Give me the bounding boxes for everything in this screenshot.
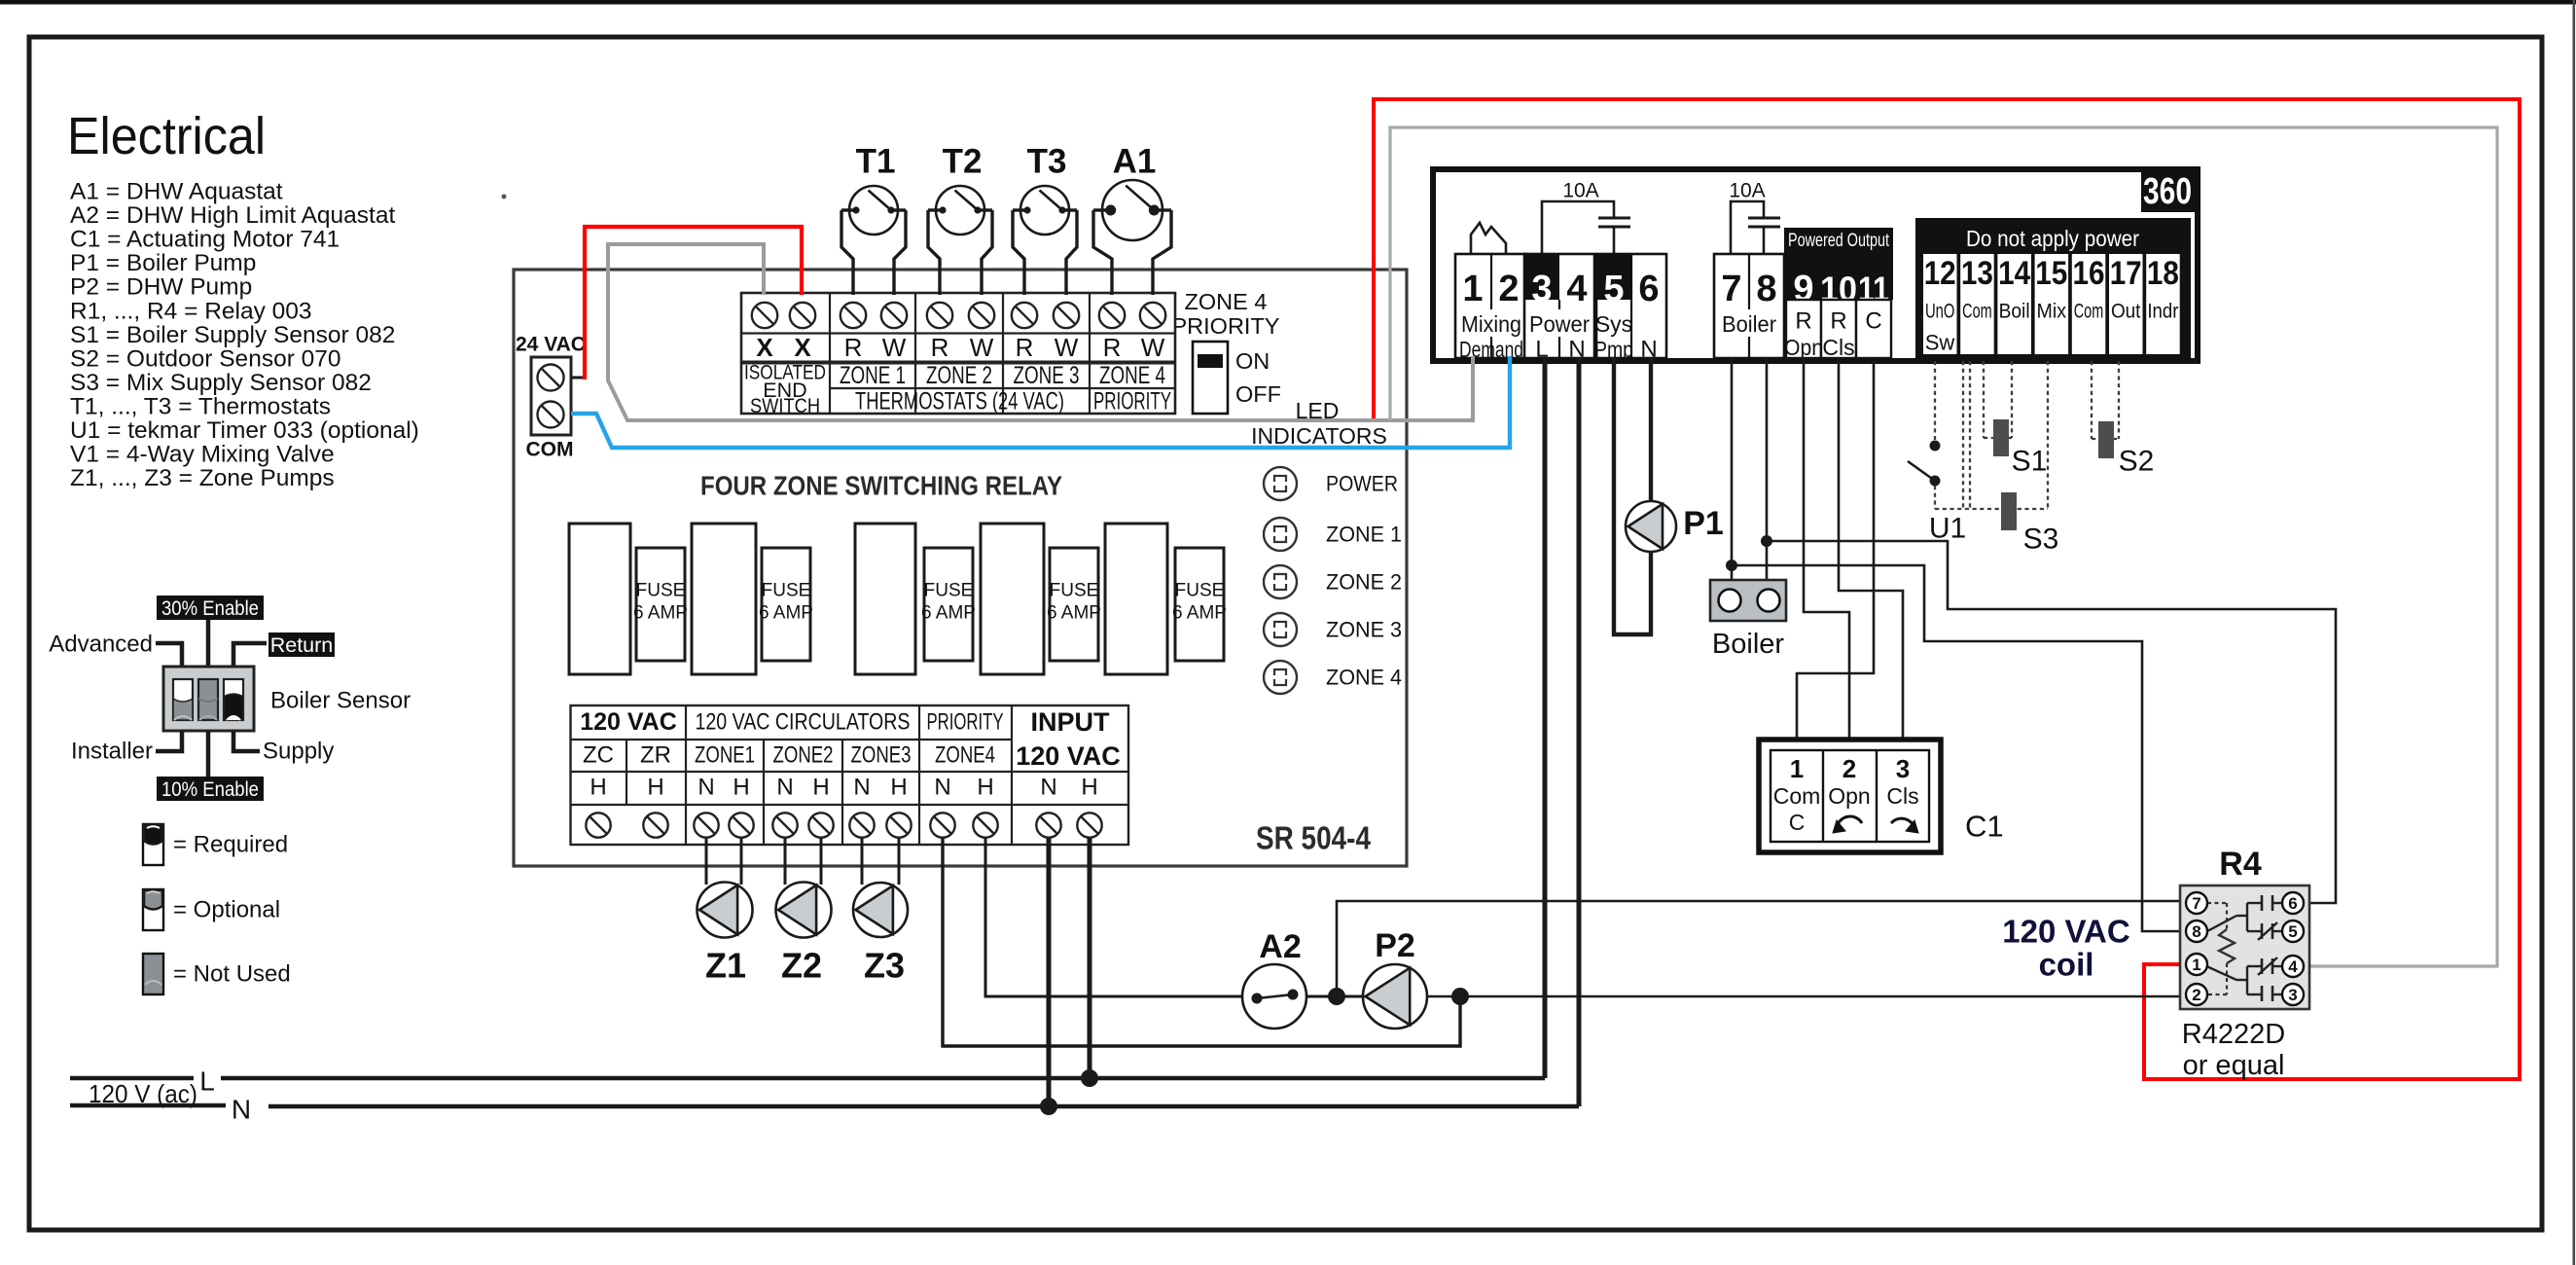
wire terminal 4 N down to bottom rail <box>1577 358 1582 1106</box>
svg-text:R4222D: R4222D <box>2182 1019 2285 1050</box>
svg-text:P1 = Boiler Pump: P1 = Boiler Pump <box>70 250 256 276</box>
svg-text:8: 8 <box>2192 922 2200 941</box>
terminal cells 1-2 Mixing Demand <box>1455 254 1526 358</box>
svg-text:12: 12 <box>1924 255 1956 292</box>
actuating motor C1 box <box>1759 740 1941 852</box>
svg-text:S2: S2 <box>2119 446 2155 478</box>
terminal cells 7-8 Boiler <box>1714 254 1784 358</box>
svg-text:T2: T2 <box>943 143 983 181</box>
svg-text:R: R <box>1103 333 1122 362</box>
svg-text:R: R <box>1016 333 1034 362</box>
dashed wire terminal 12 to U1 <box>1934 361 1936 440</box>
svg-text:COM: COM <box>526 439 574 461</box>
svg-text:Do not apply power: Do not apply power <box>1966 226 2139 251</box>
svg-text:N: N <box>853 775 870 801</box>
thermostat terminal strip <box>741 293 1175 414</box>
R4 contact 4 NC <box>2247 965 2262 967</box>
thermostat A1 <box>1093 210 1112 295</box>
svg-text:FUSE: FUSE <box>1050 581 1099 601</box>
svg-text:R: R <box>1830 308 1846 335</box>
svg-text:R: R <box>844 333 863 362</box>
svg-text:ZONE3: ZONE3 <box>851 742 912 769</box>
svg-text:Advanced: Advanced <box>49 632 153 658</box>
svg-text:Opn: Opn <box>1784 335 1823 360</box>
svg-text:R4: R4 <box>2219 846 2262 883</box>
wire dip switch to Supply <box>233 731 260 751</box>
label 360 tab <box>2141 171 2197 212</box>
wire priority zone4 N loop to P2 junction <box>943 838 1460 1046</box>
svg-text:POWER: POWER <box>1326 472 1398 496</box>
wire blue COM to terminal 2 <box>571 356 1510 448</box>
svg-text:6 AMP: 6 AMP <box>921 603 976 624</box>
terminal cells 12-18 sensor terminals <box>1923 254 1957 354</box>
wire terminal 3 L down to bottom rail <box>1543 358 1548 1078</box>
R4 contact bracket top <box>2246 903 2248 931</box>
terminal cells 5-6 Sys Pmp N <box>1596 254 1666 358</box>
svg-text:1: 1 <box>1462 269 1483 309</box>
svg-text:H: H <box>1081 775 1097 801</box>
bottom rail L <box>70 1076 194 1081</box>
svg-text:ZONE4: ZONE4 <box>935 742 995 769</box>
svg-text:120 VAC CIRCULATORS: 120 VAC CIRCULATORS <box>696 709 911 736</box>
wire input H to line rail <box>1088 838 1092 1078</box>
wire terminal 7 to boiler <box>1731 358 1734 581</box>
svg-text:6 AMP: 6 AMP <box>1172 603 1227 624</box>
svg-text:ZONE 3: ZONE 3 <box>1326 618 1402 642</box>
thermostat T3 <box>1013 210 1024 295</box>
svg-text:P2 = DHW Pump: P2 = DHW Pump <box>70 274 252 301</box>
svg-text:W: W <box>1141 333 1165 362</box>
svg-text:24 VAC: 24 VAC <box>516 334 586 356</box>
C1 cls arrow <box>1891 818 1914 828</box>
terminal cells 3-4 Power L N <box>1524 254 1594 358</box>
svg-text:N: N <box>232 1095 251 1125</box>
svg-text:Z3: Z3 <box>864 946 905 986</box>
svg-text:= Optional: = Optional <box>173 897 280 923</box>
svg-text:6: 6 <box>1638 269 1659 309</box>
svg-text:Indr: Indr <box>2147 301 2178 323</box>
svg-text:PRIORITY: PRIORITY <box>1172 313 1280 339</box>
dip switch body <box>163 667 254 731</box>
svg-text:5: 5 <box>1603 269 1624 309</box>
LED POWER <box>1264 467 1297 500</box>
svg-text:Boiler: Boiler <box>1712 629 1784 660</box>
120 VAC circulators terminal table <box>571 705 1129 845</box>
svg-text:Sys: Sys <box>1595 311 1632 337</box>
svg-text:S1: S1 <box>2012 446 2048 478</box>
svg-text:W: W <box>970 333 994 362</box>
terminal screws isolated end switch <box>752 303 777 328</box>
svg-text:S3 = Mix Supply Sensor 082: S3 = Mix Supply Sensor 082 <box>70 370 372 396</box>
svg-text:2: 2 <box>2192 986 2200 1004</box>
svg-text:X: X <box>756 333 773 362</box>
LED ZONE 3 <box>1264 613 1297 646</box>
svg-text:FUSE: FUSE <box>636 581 686 601</box>
dashed wire to S1 right <box>2011 361 2013 438</box>
svg-text:U1 = tekmar Timer 033 (optiona: U1 = tekmar Timer 033 (optional) <box>70 417 419 444</box>
dip switch rocker 3 (Return/Supply, Boiler Sensor) <box>224 679 243 720</box>
svg-text:Sw: Sw <box>1925 331 1955 355</box>
thermostat T2 <box>928 210 940 295</box>
wire red rectangle loop to R4 pin 1 <box>1374 99 2520 1079</box>
svg-text:H: H <box>977 775 993 801</box>
svg-text:SR 504-4: SR 504-4 <box>1256 820 1372 856</box>
boiler junction dots <box>1726 560 1737 571</box>
relay R3 block <box>855 524 915 674</box>
svg-text:ZONE 1: ZONE 1 <box>840 362 906 389</box>
svg-text:3: 3 <box>2288 986 2297 1004</box>
svg-text:P2: P2 <box>1375 927 1415 964</box>
icon Required <box>143 824 163 865</box>
right edge line <box>2573 0 2576 1265</box>
svg-text:ZONE 4: ZONE 4 <box>1185 289 1268 314</box>
svg-text:18: 18 <box>2147 255 2179 292</box>
svg-text:120 VAC: 120 VAC <box>2002 914 2129 950</box>
svg-text:ZC: ZC <box>583 742 614 769</box>
svg-text:SWITCH: SWITCH <box>750 394 820 417</box>
24 VAC COM terminal block <box>531 357 571 435</box>
wire zone3 pump Z3 <box>861 838 864 885</box>
svg-text:A2 = DHW High Limit Aquastat: A2 = DHW High Limit Aquastat <box>70 202 395 229</box>
svg-text:Opn: Opn <box>1828 783 1870 809</box>
svg-text:A1: A1 <box>1113 143 1157 181</box>
svg-text:Mix: Mix <box>2037 301 2067 323</box>
svg-text:15: 15 <box>2035 255 2067 292</box>
LED ZONE 4 <box>1264 661 1297 694</box>
svg-text:3: 3 <box>1531 269 1552 309</box>
zone pump Z1 <box>698 883 753 938</box>
screws 120VAC table <box>586 813 610 837</box>
fuse 10A for terminals 7-8 <box>1731 201 1764 254</box>
svg-text:Boil: Boil <box>1999 301 2030 323</box>
four zone switching relay box <box>514 270 1407 866</box>
svg-text:Demand: Demand <box>1459 337 1523 362</box>
svg-text:30% Enable: 30% Enable <box>161 596 259 620</box>
boiler block <box>1710 580 1786 621</box>
wire Return to dip switch <box>233 643 267 668</box>
svg-text:ZONE 4: ZONE 4 <box>1326 666 1402 690</box>
wire terminal 9 R Opn to C1 opn <box>1804 358 1849 741</box>
label 10% Enable <box>157 777 264 801</box>
svg-text:PRIORITY: PRIORITY <box>927 709 1004 736</box>
svg-text:Cls: Cls <box>1886 783 1918 809</box>
svg-text:V1 = 4-Way Mixing Valve: V1 = 4-Way Mixing Valve <box>70 442 335 468</box>
icon Optional <box>143 889 163 930</box>
svg-text:ZONE 3: ZONE 3 <box>1014 362 1080 389</box>
svg-text:R: R <box>931 333 949 362</box>
svg-text:Boiler: Boiler <box>1722 311 1776 337</box>
svg-text:H: H <box>733 775 749 801</box>
svg-text:PRIORITY: PRIORITY <box>1093 388 1171 416</box>
fuse F5 6 AMP <box>1175 548 1224 661</box>
wire gray R4 pin 4 loop <box>1390 127 2497 966</box>
svg-text:N: N <box>698 775 714 801</box>
top black strip <box>0 0 2576 5</box>
zone 4 priority slide switch <box>1193 342 1228 414</box>
svg-text:Z1: Z1 <box>705 946 746 986</box>
svg-text:FUSE: FUSE <box>762 581 811 601</box>
svg-text:ZONE 4: ZONE 4 <box>1099 362 1165 389</box>
svg-text:C1: C1 <box>1965 810 2004 844</box>
svg-text:Z1, ..., Z3 = Zone Pumps: Z1, ..., Z3 = Zone Pumps <box>70 465 335 491</box>
wire dip switch to 10% Enable <box>206 731 211 777</box>
svg-text:ZONE 2: ZONE 2 <box>1326 570 1402 595</box>
stray dot artifact <box>502 195 507 199</box>
fuse F3 6 AMP <box>924 548 973 661</box>
svg-text:120 V (ac): 120 V (ac) <box>89 1079 197 1108</box>
do not apply power panel <box>1915 218 2191 358</box>
svg-text:Installer: Installer <box>71 739 153 765</box>
dashed wire to S1 left <box>1983 361 1985 438</box>
relay R4 block <box>981 524 1044 674</box>
R4 contact bracket bottom <box>2246 966 2248 994</box>
wire boiler left junction to R4 pin 8 <box>1732 565 2187 931</box>
junction dot P2 right <box>1451 988 1469 1005</box>
svg-text:OFF: OFF <box>1235 381 1281 407</box>
wire Advanced to dip switch <box>156 643 182 668</box>
wire gray isolated end switch X to COM bus <box>608 244 1473 420</box>
R4 armature pin1 <box>2202 964 2236 980</box>
label Return <box>268 632 335 657</box>
svg-text:A2: A2 <box>1259 928 1301 965</box>
svg-text:Z2: Z2 <box>781 946 822 986</box>
wire zone1 pump Z1 <box>705 838 708 885</box>
svg-text:120 VAC: 120 VAC <box>580 708 677 736</box>
svg-text:7: 7 <box>1721 269 1741 309</box>
wire terminal 5 Sys Pmp to P1 loop <box>1614 358 1651 634</box>
svg-text:3: 3 <box>1896 754 1910 783</box>
svg-text:FUSE: FUSE <box>924 581 974 601</box>
svg-text:ON: ON <box>1235 348 1270 374</box>
junction dot input H on L rail <box>1081 1069 1098 1087</box>
svg-text:6 AMP: 6 AMP <box>633 603 688 624</box>
svg-text:16: 16 <box>2073 255 2105 292</box>
wire zone2 pump Z2 <box>784 838 787 885</box>
dip switch rocker 2 (30%/10% Enable) <box>198 679 218 720</box>
relay R5 block <box>1105 524 1167 674</box>
svg-text:UnO: UnO <box>1925 301 1955 323</box>
svg-text:Com: Com <box>1773 783 1821 809</box>
R4 coil dashed links <box>2207 902 2227 904</box>
svg-text:R: R <box>1795 308 1811 335</box>
zone pump Z2 <box>776 883 832 938</box>
relay R2 block <box>692 524 756 674</box>
wire Installer to dip switch <box>156 731 182 751</box>
bottom rail N <box>70 1103 226 1108</box>
svg-text:U1: U1 <box>1929 513 1966 545</box>
svg-text:INPUT: INPUT <box>1031 707 1111 737</box>
svg-text:W: W <box>1055 333 1079 362</box>
fuse 10A for terminals 3-5 <box>1542 201 1614 254</box>
svg-text:C: C <box>1789 810 1806 835</box>
svg-text:T1: T1 <box>856 143 896 181</box>
svg-text:Electrical: Electrical <box>67 107 266 165</box>
svg-text:T1, ..., T3 = Thermostats: T1, ..., T3 = Thermostats <box>70 393 331 419</box>
fuse F2 6 AMP <box>762 548 810 661</box>
R4 coil zigzag <box>2219 929 2235 963</box>
svg-text:6 AMP: 6 AMP <box>1047 603 1101 624</box>
dashed bus U1 to S3 <box>1934 486 1936 509</box>
dashed wire terminal 15 to S3 bus <box>2047 361 2049 509</box>
svg-text:1: 1 <box>1790 754 1804 783</box>
LED ZONE 1 <box>1264 518 1297 551</box>
svg-text:S3: S3 <box>2023 524 2059 556</box>
svg-text:7: 7 <box>2192 894 2200 913</box>
svg-text:6 AMP: 6 AMP <box>759 603 813 624</box>
wire input N to neutral rail <box>1047 838 1052 1106</box>
junction dot input N on N rail <box>1040 1098 1057 1115</box>
svg-text:Power: Power <box>1529 311 1590 337</box>
R4 contact 5 NC <box>2247 930 2262 932</box>
svg-text:N: N <box>934 775 950 801</box>
svg-text:17: 17 <box>2110 255 2142 292</box>
fuse F1 6 AMP <box>636 548 685 661</box>
svg-text:A1 = DHW Aquastat: A1 = DHW Aquastat <box>70 179 283 205</box>
wire 30% Enable to dip switch <box>206 620 211 668</box>
terminal screws zone thermostats <box>841 303 866 328</box>
icon Not Used <box>143 954 163 994</box>
svg-text:5: 5 <box>2288 922 2297 941</box>
junction dot A2-P2 <box>1328 988 1345 1005</box>
sensor S1 <box>1993 419 2009 456</box>
wire terminal 8 to boiler <box>1766 358 1769 581</box>
svg-text:Mixing: Mixing <box>1461 311 1521 337</box>
svg-text:ZR: ZR <box>640 742 671 769</box>
R4 pins <box>2186 892 2207 914</box>
svg-text:6: 6 <box>2288 894 2297 913</box>
pump P1 <box>1626 501 1676 552</box>
sensor S3 <box>2001 492 2017 530</box>
thermostat T1 <box>841 210 853 295</box>
svg-text:4: 4 <box>1566 269 1587 309</box>
timer switch U1 <box>1930 441 1941 452</box>
zone pump Z3 <box>853 883 908 937</box>
svg-text:coil: coil <box>2039 947 2094 983</box>
wire A2 P2 junction to R4 pin 7 <box>1337 901 2187 996</box>
LED ZONE 2 <box>1264 565 1297 598</box>
svg-text:X: X <box>794 333 811 362</box>
svg-text:2: 2 <box>1843 754 1856 783</box>
svg-text:Supply: Supply <box>263 739 334 765</box>
svg-text:= Not Used: = Not Used <box>173 961 291 988</box>
svg-text:FOUR ZONE SWITCHING RELAY: FOUR ZONE SWITCHING RELAY <box>700 471 1062 501</box>
dashed wires terminal 13 pair <box>1962 361 1964 509</box>
svg-text:P1: P1 <box>1683 505 1724 542</box>
tekmar 360 mixing control box <box>1433 169 2198 361</box>
svg-text:ZONE 2: ZONE 2 <box>926 362 992 389</box>
svg-text:ZONE2: ZONE2 <box>773 742 834 769</box>
wire priority zone4 H to A2 <box>985 838 1244 996</box>
svg-text:Com: Com <box>1962 301 1992 323</box>
svg-text:H: H <box>647 775 663 801</box>
label 30% Enable <box>157 596 264 620</box>
svg-text:ZONE 1: ZONE 1 <box>1326 523 1402 547</box>
wire A2 to P2 to R4 pin 2 <box>1305 995 1365 998</box>
dashed wire to S2 right <box>2118 361 2120 439</box>
svg-text:Cls: Cls <box>1822 335 1854 360</box>
wire terminal 10 R Cls to C1 cls <box>1839 358 1903 741</box>
wire red 24VAC to isolated end switch X <box>571 377 587 379</box>
svg-text:Out: Out <box>2111 301 2141 323</box>
svg-text:or equal: or equal <box>2183 1050 2285 1081</box>
svg-text:10% Enable: 10% Enable <box>161 777 259 801</box>
powered output band <box>1784 228 1893 300</box>
relay R4 body <box>2180 885 2309 1009</box>
svg-text:H: H <box>812 775 829 801</box>
R4 armature pin8 <box>2207 916 2236 931</box>
svg-text:360: 360 <box>2143 171 2192 212</box>
svg-text:Boiler Sensor: Boiler Sensor <box>270 688 411 714</box>
svg-text:L: L <box>199 1066 215 1097</box>
R4 contact 3 NO <box>2247 994 2262 995</box>
svg-text:FUSE: FUSE <box>1175 581 1225 601</box>
wire terminal 11 C to C1 com <box>1797 358 1874 741</box>
svg-text:W: W <box>882 333 907 362</box>
wire boiler right junction to R4 pin 6 <box>1767 541 2336 903</box>
svg-text:10A: 10A <box>1562 180 1598 202</box>
svg-text:C1 = Actuating Motor 741: C1 = Actuating Motor 741 <box>70 227 340 253</box>
svg-text:10A: 10A <box>1729 180 1765 202</box>
svg-text:C: C <box>1865 308 1881 335</box>
svg-text:2: 2 <box>1498 269 1519 309</box>
pump P2 <box>1363 964 1427 1029</box>
svg-text:14: 14 <box>1998 255 2030 292</box>
dashed wire to S2 left <box>2091 361 2093 439</box>
svg-text:R1, ..., R4 = Relay 003: R1, ..., R4 = Relay 003 <box>70 298 312 324</box>
svg-text:Com: Com <box>2074 301 2104 323</box>
R4 contact 6 NO <box>2247 902 2262 904</box>
svg-text:Return: Return <box>270 633 334 657</box>
svg-text:4: 4 <box>2288 958 2298 976</box>
aquastat A2 <box>1242 964 1306 1029</box>
svg-text:Powered Output: Powered Output <box>1788 230 1889 251</box>
svg-text:S2 = Outdoor Sensor 070: S2 = Outdoor Sensor 070 <box>70 345 341 372</box>
demand zigzag symbol above terminals 1-2 <box>1471 223 1506 255</box>
sensor S2 <box>2098 421 2114 458</box>
svg-text:N: N <box>776 775 793 801</box>
svg-text:1: 1 <box>2192 956 2200 974</box>
svg-text:120 VAC: 120 VAC <box>1016 741 1121 771</box>
svg-text:T3: T3 <box>1027 143 1067 181</box>
svg-text:13: 13 <box>1961 255 1993 292</box>
svg-text:= Required: = Required <box>173 832 288 858</box>
svg-text:ZONE1: ZONE1 <box>695 742 755 769</box>
C1 opn arrow <box>1837 816 1862 828</box>
svg-text:8: 8 <box>1756 269 1776 309</box>
svg-text:INDICATORS: INDICATORS <box>1251 423 1387 449</box>
svg-text:H: H <box>590 775 606 801</box>
svg-text:THERMOSTATS (24 VAC): THERMOSTATS (24 VAC) <box>855 388 1064 416</box>
svg-text:S1 = Boiler Supply Sensor 082: S1 = Boiler Supply Sensor 082 <box>70 322 395 348</box>
svg-text:N: N <box>1040 775 1056 801</box>
relay R1 block <box>569 524 630 674</box>
svg-text:H: H <box>890 775 907 801</box>
fuse F4 6 AMP <box>1050 548 1098 661</box>
dip switch rocker 1 (Advanced/Installer) <box>173 679 193 720</box>
